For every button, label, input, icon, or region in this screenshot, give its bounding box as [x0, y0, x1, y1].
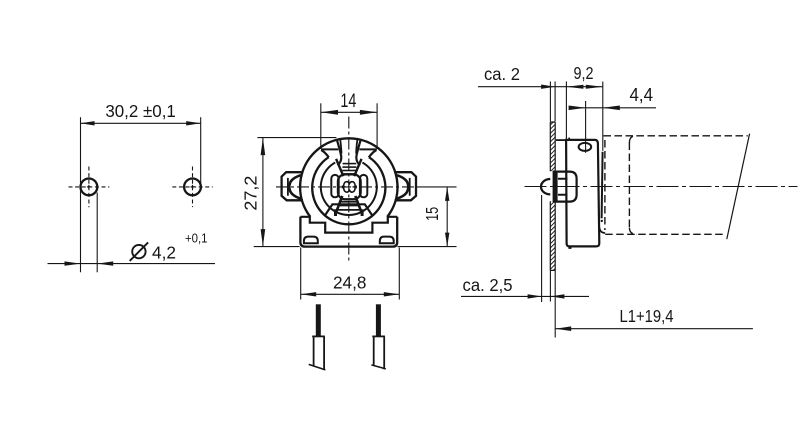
dimension Ø 4,2 +0,1 [48, 193, 216, 273]
base slot right [380, 237, 394, 244]
centermark right hole [172, 167, 212, 208]
latch bump [541, 179, 550, 194]
slot wall left [337, 140, 341, 166]
ear right [394, 172, 416, 200]
dimension ca. 2 [478, 82, 603, 122]
svg-text:14: 14 [340, 91, 356, 112]
panel face extension below [549, 270, 551, 301]
svg-text:15: 15 [422, 207, 442, 221]
svg-text:ca. 2,5: ca. 2,5 [463, 275, 513, 295]
rotor inner curves [344, 182, 356, 186]
mounting panel hatched bottom [550, 201, 555, 270]
outer ring circle [312, 157, 385, 224]
inner ring circle [321, 163, 377, 215]
horizontal centerline [276, 186, 415, 188]
rotor side lobe right [360, 175, 367, 197]
mounting hole right [184, 179, 201, 196]
pin right solid [376, 304, 381, 337]
pin left sleeve [312, 336, 325, 369]
pin left solid [316, 304, 321, 337]
latch body [553, 172, 577, 202]
lamp break line [727, 134, 750, 240]
lamp phantom outline [604, 136, 748, 235]
dimension ca. 2,5 [461, 195, 589, 302]
centerline right view [525, 186, 798, 188]
body hole [579, 143, 592, 151]
bottom hood [325, 204, 373, 215]
svg-text:4,4: 4,4 [630, 85, 654, 105]
funnel ledge right [359, 148, 376, 150]
svg-text:L1+19,4: L1+19,4 [620, 306, 674, 326]
dimension 27,2 [254, 138, 337, 247]
centermark left hole [69, 167, 110, 208]
vertical centerline [348, 117, 350, 263]
slot wall right [356, 140, 360, 166]
dimension 14 [321, 103, 377, 149]
mounting panel hatched top [550, 122, 555, 171]
dimension 4,4 [571, 101, 656, 153]
lower contact stack [338, 202, 359, 210]
holder body side [556, 139, 567, 141]
svg-text:ca. 2: ca. 2 [484, 64, 520, 84]
base outline [300, 217, 397, 247]
dimension 9,2 [566, 82, 602, 151]
rotor side lobe left [331, 175, 338, 197]
diameter symbol [132, 245, 145, 258]
ear left [282, 172, 304, 200]
svg-text:30,2 ±0,1: 30,2 ±0,1 [105, 101, 176, 121]
body bulge contour [602, 152, 603, 219]
funnel ledge left [321, 148, 338, 150]
base slot left [304, 237, 318, 244]
contact tip right [361, 209, 364, 216]
upper contact stack [342, 164, 357, 174]
dimension 15 [398, 187, 457, 247]
dimension L1+19,4 [555, 328, 753, 330]
dimension 30,2 ±0,1 [81, 117, 201, 272]
pin right sleeve [372, 336, 385, 369]
mounting hole left [81, 179, 98, 196]
svg-text:+0,1: +0,1 [185, 230, 208, 245]
contact tip left [334, 209, 337, 216]
svg-text:27,2: 27,2 [241, 176, 261, 211]
svg-text:24,8: 24,8 [333, 273, 367, 293]
rotor core [338, 174, 361, 199]
dimension 24,8 [301, 248, 400, 300]
housing dome arc [300, 138, 397, 217]
svg-text:4,2: 4,2 [152, 242, 176, 262]
funnel wall right [369, 150, 377, 157]
funnel wall left [321, 150, 329, 157]
svg-text:9,2: 9,2 [574, 63, 594, 83]
